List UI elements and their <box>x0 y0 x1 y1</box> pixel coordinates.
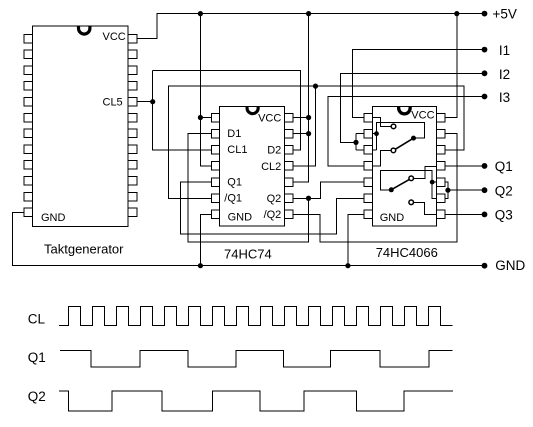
node +5V terminal <box>482 11 488 17</box>
svg-text:Q2: Q2 <box>495 183 513 198</box>
wire +5V down to U2 right row5 <box>293 14 309 183</box>
svg-text:GND: GND <box>495 258 525 273</box>
wire U2 GND to rail <box>200 214 211 265</box>
wire I1 to U3 pin1 <box>353 50 485 118</box>
svg-text:VCC: VCC <box>411 109 434 121</box>
IC U1 right pin 3 <box>128 66 137 75</box>
IC U1 right pin 7 <box>128 129 137 138</box>
IC U3 left pin row5 <box>364 178 372 187</box>
svg-text:CL: CL <box>28 311 46 326</box>
wire Q2 to U3 pin5 (control) <box>293 182 364 198</box>
IC U1 left pin 11 <box>24 192 32 201</box>
wire SW1 common loop (pins 2,3 to pivot) <box>372 122 424 150</box>
junction U2 GND on rail <box>198 263 203 268</box>
IC U3 right pin row2 <box>437 129 445 138</box>
IC U3 right pin row6 <box>437 194 445 203</box>
IC U1 Taktgenerator body <box>32 26 128 226</box>
IC U2 right pin row2 <box>285 129 293 138</box>
wire I3 to U3 pin4 <box>328 97 484 166</box>
IC U1 right pin 5 <box>128 97 137 106</box>
node Q2 terminal <box>482 187 488 193</box>
IC U3 left pin row3 <box>364 146 372 155</box>
svg-text:/Q1: /Q1 <box>224 192 242 204</box>
wire Q2 output bracket <box>445 182 485 198</box>
wire SW2 contact to right pin row4 <box>414 167 437 179</box>
wire /Q2 to U3 right row2 <box>293 134 457 242</box>
wire U3 GND to rail <box>348 214 364 265</box>
svg-text:Q1: Q1 <box>495 159 513 174</box>
svg-text:D1: D1 <box>227 128 241 140</box>
svg-text:Q1: Q1 <box>227 176 242 188</box>
IC U1 left pin 2 <box>24 50 32 59</box>
junction U2 pin1 <box>198 115 203 120</box>
svg-text:Q1: Q1 <box>28 350 46 365</box>
wire D1 to Q2 <box>188 134 308 242</box>
svg-text:74HC4066: 74HC4066 <box>376 245 438 260</box>
IC U1 left pin 12 <box>24 208 32 217</box>
wire U2 right row2 stub <box>293 133 309 135</box>
junction /Q1 line at CL2 branch <box>313 84 318 89</box>
node I3 terminal <box>482 94 488 100</box>
IC U1 left pin 1 <box>24 34 32 43</box>
wire I2 to U3 pins2,3 <box>341 73 485 150</box>
IC U1 notch <box>77 26 92 36</box>
svg-text:GND: GND <box>228 211 253 223</box>
junction +5V at x457 <box>454 11 459 16</box>
svg-text:CL5: CL5 <box>103 96 123 108</box>
IC U2 left pin row5 <box>211 178 219 187</box>
IC U2 74HC74 body <box>220 106 285 226</box>
switch SW1 contact a (top circle) <box>391 124 396 129</box>
switch SW1 contact b (bottom circle) <box>391 148 396 153</box>
switch SW1 lever <box>395 138 413 149</box>
wire CL2 branch <box>293 86 316 166</box>
IC U1 left pin 8 <box>24 145 32 154</box>
junction Q2 bracket <box>445 188 450 193</box>
IC U3 left pin row6 <box>364 194 372 203</box>
junction +5V at x308 <box>306 11 311 16</box>
IC U3 notch <box>397 107 412 116</box>
junction +5V at x200 <box>198 11 203 16</box>
IC U1 left pin 4 <box>24 82 32 91</box>
IC U2 right pin row3 <box>285 146 293 155</box>
IC U1 right pin 1 <box>128 34 137 43</box>
svg-text:CL2: CL2 <box>261 161 281 173</box>
node Q1 terminal <box>482 163 488 169</box>
IC U2 right pin row5 <box>285 178 293 187</box>
IC U3 right pin row5 <box>437 178 445 187</box>
junction SW2 net row5 <box>430 180 435 185</box>
IC U2 right pin row7 <box>285 210 293 219</box>
svg-text:D2: D2 <box>267 145 281 157</box>
svg-text:Taktgenerator: Taktgenerator <box>44 242 124 257</box>
IC U3 left pin row2 <box>364 129 372 138</box>
IC U3 right pin row4 <box>437 162 445 171</box>
IC U1 left pin 9 <box>24 161 32 170</box>
svg-text:I1: I1 <box>499 43 510 58</box>
node GND terminal <box>482 263 488 269</box>
IC U2 left pin row2 <box>211 129 219 138</box>
junction U2 VCC <box>306 115 311 120</box>
IC U1 right pin 4 <box>128 82 137 91</box>
wire U2 VCC stub <box>293 117 309 119</box>
IC U3 right pin row3 <box>437 146 445 155</box>
IC U1 right pin 2 <box>128 50 137 59</box>
IC U2 left pin row1 <box>211 113 219 122</box>
svg-text:Q2: Q2 <box>267 193 282 205</box>
IC U1 right pin 11 <box>128 192 137 201</box>
+5V rail <box>137 14 485 39</box>
IC U1 left pin 5 <box>24 97 32 106</box>
wire Q1 to U3 pin6 (control) <box>180 182 364 234</box>
IC U1 left pin 6 <box>24 113 32 122</box>
wire SW1 contact b to U3 pin4 <box>372 150 391 166</box>
wire CL5 over to D2 <box>153 70 301 150</box>
node I2 terminal <box>482 70 488 76</box>
junction I2 split <box>353 140 358 145</box>
junction CL5 <box>150 99 155 104</box>
IC U3 74HC4066 body <box>372 107 436 226</box>
wire SW2 pivot to right pins row5,row6 <box>381 170 437 198</box>
node I1 terminal <box>482 47 488 53</box>
IC U2 left pin row4 <box>211 162 219 171</box>
IC U2 right pin row1 <box>285 113 293 122</box>
IC U1 right pin 12 <box>128 208 137 217</box>
IC U1 right pin 9 <box>128 161 137 170</box>
svg-text:GND: GND <box>41 212 66 224</box>
svg-text:/Q2: /Q2 <box>264 209 282 221</box>
IC U2 right pin row4 <box>285 162 293 171</box>
svg-text:Q2: Q2 <box>28 389 46 404</box>
switch SW2 pivot dot <box>389 187 394 192</box>
IC U1 right pin 8 <box>128 145 137 154</box>
svg-text:I2: I2 <box>499 67 510 82</box>
wire U2 pin1 stub <box>200 117 211 119</box>
wire CL5 to CL1 <box>137 70 212 150</box>
IC U2 right pin row6 <box>285 194 293 203</box>
switch SW2 contact (circle) <box>409 176 414 181</box>
IC U3 left pin row1 <box>364 113 372 122</box>
wire U3 VCC to +5V rail <box>445 14 457 118</box>
IC U2 left pin row6 <box>211 194 219 203</box>
IC U1 left pin 10 <box>24 176 32 185</box>
junction Q2 <box>306 196 311 201</box>
junction U2 right row2 <box>306 131 311 136</box>
svg-text:GND: GND <box>380 212 405 224</box>
IC U3 right pin row7 <box>437 210 445 219</box>
waveform CL trace <box>59 307 453 326</box>
switch SW3 contact (circle) <box>409 200 414 205</box>
IC U2 left pin row7 <box>211 210 219 219</box>
wire +5V down to U2 pin1 and pin4 <box>200 14 211 166</box>
junction pin2/pin3 net <box>374 131 379 136</box>
IC U3 left pin row4 <box>364 162 372 171</box>
IC U2 notch <box>246 106 260 115</box>
svg-text:Q3: Q3 <box>495 208 513 223</box>
waveform Q2 trace <box>59 391 453 411</box>
IC U1 left pin 7 <box>24 129 32 138</box>
IC U3 left pin row7 <box>364 210 372 219</box>
svg-text:VCC: VCC <box>103 31 126 43</box>
switch SW2 lever <box>392 179 410 189</box>
IC U1 right pin 6 <box>128 113 137 122</box>
junction U3 GND on rail <box>345 263 350 268</box>
wire Q1 output <box>445 165 485 167</box>
waveform Q1 trace <box>60 350 453 367</box>
wire U3 pin1 to SW1 contact a <box>372 118 391 127</box>
svg-text:+5V: +5V <box>493 7 517 22</box>
node Q3 terminal <box>482 212 488 218</box>
IC U2 left pin row3 <box>211 146 219 155</box>
IC U1 left pin 3 <box>24 66 32 75</box>
switch SW1 pivot dot <box>411 136 416 141</box>
svg-text:CL1: CL1 <box>227 144 247 156</box>
wire Q3 output <box>445 213 485 215</box>
svg-text:74HC74: 74HC74 <box>224 246 272 261</box>
IC U1 right pin 10 <box>128 176 137 185</box>
wire SW3 contact to right pin row7 <box>414 202 437 214</box>
svg-text:I3: I3 <box>499 90 510 105</box>
GND rail <box>12 212 484 265</box>
wire /Q1 to CL2 and U3 right row3 <box>168 86 464 198</box>
svg-text:VCC: VCC <box>258 113 281 125</box>
IC U3 right pin row1 <box>437 113 445 122</box>
